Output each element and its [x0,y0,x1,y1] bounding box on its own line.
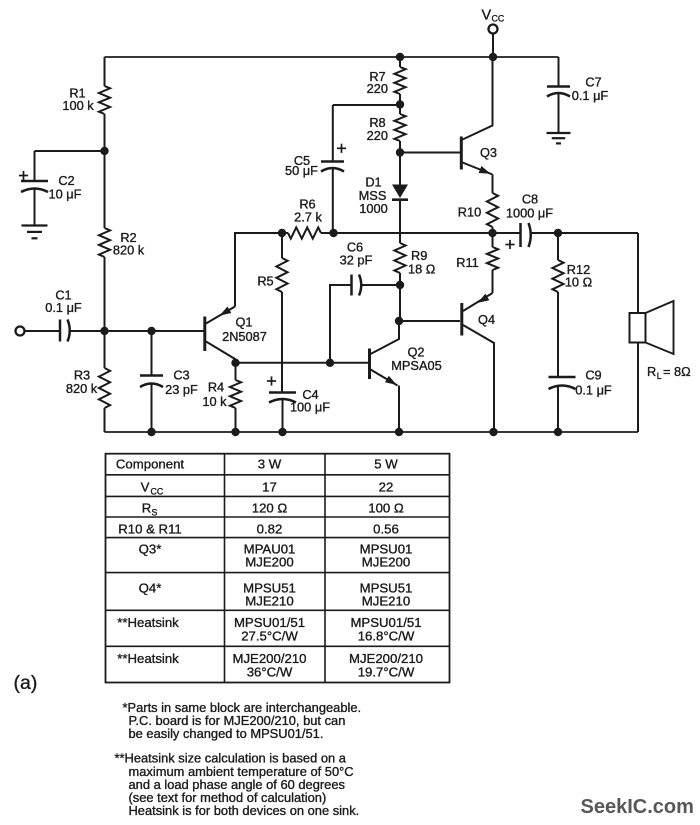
svg-text:V: V [141,480,150,495]
resistor R8 [367,105,406,153]
node A (R1/R2/C2 junction) [100,147,108,155]
node G (R6/C5 junction) [329,229,337,237]
svg-text:220: 220 [367,81,388,96]
wire Q1 collector node line [236,362,370,364]
svg-text:27.5°C/W: 27.5°C/W [241,629,298,644]
resistor R4 [202,363,241,432]
svg-text:120 Ω: 120 Ω [252,501,288,516]
diode D1 MSS1000 [359,153,408,244]
svg-text:CC: CC [151,487,164,497]
capacitor C9 [549,368,612,433]
svg-text:18 Ω: 18 Ω [408,262,436,277]
ground (C7) [547,133,571,143]
node H (R7/R8/C5) [396,100,404,108]
svg-text:Component: Component [116,457,185,472]
svg-text:3 W: 3 W [258,457,282,472]
capacitor C1 [45,288,104,342]
resistor R7 [367,57,406,105]
speaker RL [630,233,692,432]
svg-text:32 pF: 32 pF [340,253,373,268]
svg-text:0.56: 0.56 [373,522,399,537]
watermark SeekIC.com [581,796,694,818]
svg-text:L: L [657,371,662,381]
wire Q3 base [400,152,460,154]
svg-text:R5: R5 [257,274,273,289]
wire feedback line left [235,233,282,307]
svg-text:2.7 k: 2.7 k [294,210,322,225]
svg-text:Q1: Q1 [235,315,252,330]
capacitor C3 [140,331,198,432]
svg-text:S: S [152,508,158,518]
wire input to C1 [24,330,60,332]
transistor Q4 [462,293,495,432]
node: top rail / R7 junction [396,53,404,61]
svg-text:100 μF: 100 μF [290,400,330,415]
capacitor C7 [547,57,608,133]
svg-text:R10 & R11: R10 & R11 [118,522,182,537]
node rail-R4 [231,428,239,436]
svg-text:17: 17 [262,480,277,495]
node rail-C3 [147,428,155,436]
resistor R10 [458,193,498,233]
wire bottom ground rail [105,431,639,433]
resistor R3 [66,331,110,432]
component table [106,454,450,683]
node rail-Q4 [489,428,497,436]
node J (R9/C6) [396,281,404,289]
svg-text:5 W: 5 W [374,457,398,472]
wire top supply rail [105,56,559,58]
resistor R6 [282,197,334,239]
svg-text:Q3*: Q3* [139,542,162,557]
wire base line [105,330,205,332]
svg-text:23 pF: 23 pF [165,382,198,397]
capacitor C2 [19,151,105,226]
svg-text:0.1 μF: 0.1 μF [45,300,82,315]
resistor R2 [99,151,145,331]
svg-text:C8: C8 [522,192,538,207]
svg-text:V: V [482,8,492,24]
wire feedback line right [334,232,494,234]
svg-text:Q4*: Q4* [139,581,162,596]
svg-text:100 Ω: 100 Ω [368,501,404,516]
footnote * parts [123,700,362,741]
svg-text:220: 220 [367,128,388,143]
svg-text:**Heatsink: **Heatsink [117,615,179,630]
svg-text:SeekIC.com: SeekIC.com [581,796,694,818]
svg-text:2N5087: 2N5087 [222,329,267,344]
svg-text:Q3: Q3 [480,145,497,160]
svg-text:R4: R4 [208,380,224,395]
node I (R8/D1/Q3 base) [396,148,404,156]
svg-text:16.8°C/W: 16.8°C/W [358,629,415,644]
svg-text:R11: R11 [456,255,479,270]
svg-text:= 8Ω: = 8Ω [663,364,691,379]
svg-text:C3: C3 [173,368,189,383]
resistor R5 [257,233,287,393]
wire Q4 base [399,320,460,322]
resistor R9 [394,243,435,321]
wire C5 to R7/R8 node [333,104,400,106]
svg-text:820 k: 820 k [113,243,145,258]
resistor R1 [62,57,110,151]
svg-text:50 μF: 50 μF [285,163,318,178]
capacitor C5 [285,105,346,233]
node rail-Q2 [395,428,403,436]
svg-text:0.82: 0.82 [257,522,283,537]
capacitor C6 [330,240,400,363]
node C (base line / C3) [147,327,155,335]
svg-text:R: R [647,364,656,379]
figure label (a) [14,672,38,694]
svg-text:22: 22 [379,480,394,495]
transistor Q1 [205,307,267,363]
node M (C8/R12/speaker) [554,229,562,237]
svg-text:C9: C9 [585,368,601,383]
input terminal [16,327,25,336]
Vcc terminal [482,8,505,62]
node rail-C9 [554,428,562,436]
svg-text:Heatsink is for both devices o: Heatsink is for both devices on one sink… [129,803,360,818]
svg-text:CC: CC [492,14,505,24]
svg-text:(a): (a) [14,672,38,694]
svg-text:MJE200: MJE200 [362,555,410,570]
svg-text:MJE200: MJE200 [245,555,293,570]
svg-text:10 Ω: 10 Ω [565,275,593,290]
node rail-C4 [278,428,286,436]
svg-text:R: R [142,501,152,516]
svg-text:R10: R10 [458,205,481,220]
svg-text:**Heatsink: **Heatsink [117,651,179,666]
svg-text:MPSA05: MPSA05 [391,358,442,373]
footnote ** heatsink [115,751,360,819]
node D (Q1 collector / R4) [231,359,239,367]
svg-text:19.7°C/W: 19.7°C/W [358,665,415,680]
svg-text:10 μF: 10 μF [49,187,82,202]
svg-text:0.1 μF: 0.1 μF [572,88,609,103]
svg-text:1000: 1000 [359,201,387,216]
svg-text:10 k: 10 k [202,394,227,409]
svg-text:be easily changed to MPSU01/51: be easily changed to MPSU01/51. [129,726,324,741]
node E (C6 tap on base line of Q2) [326,359,334,367]
capacitor C8 [493,192,559,250]
svg-text:1000 μF: 1000 μF [506,206,553,221]
node B (base line / R2 / R3) [100,327,108,335]
node L (output: R10/R11/C8) [488,229,496,237]
svg-text:0.1 μF: 0.1 μF [575,383,612,398]
resistor R12 [552,233,592,377]
transistor Q3 [461,57,497,193]
svg-text:MJE210: MJE210 [362,594,410,609]
svg-text:820 k: 820 k [66,381,98,396]
node F (R5/R6 junction) [278,229,286,237]
svg-text:MJE210: MJE210 [245,594,293,609]
resistor R11 [456,233,498,293]
svg-text:Q4: Q4 [478,312,495,327]
wire output to speaker [558,232,638,234]
ground (C2) [22,226,48,239]
svg-text:36°C/W: 36°C/W [247,665,293,680]
capacitor C4 [267,376,330,432]
svg-text:100 k: 100 k [62,98,94,113]
node K (Q2 collector / Q4 base) [395,317,403,325]
transistor Q2 [370,321,442,432]
